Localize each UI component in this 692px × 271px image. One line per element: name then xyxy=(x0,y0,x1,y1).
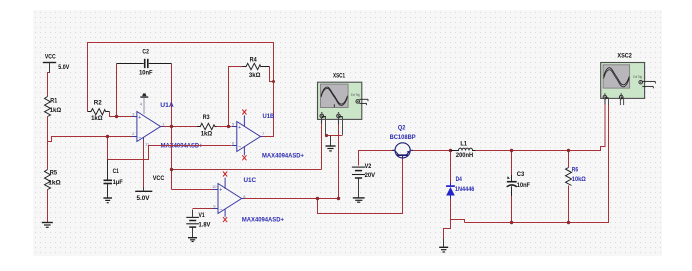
svg-text:10: 10 xyxy=(212,184,217,189)
svg-text:1kΩ: 1kΩ xyxy=(201,130,213,137)
ground below V2 xyxy=(353,179,365,203)
svg-text:MAX4094ASD+: MAX4094ASD+ xyxy=(262,153,304,160)
op-amp U1B xyxy=(232,115,263,155)
svg-text:−: − xyxy=(220,207,223,213)
svg-text:10nF: 10nF xyxy=(139,69,153,76)
battery V1 xyxy=(186,210,199,228)
svg-text:U1C: U1C xyxy=(244,177,257,184)
svg-text:1μF: 1μF xyxy=(113,179,123,186)
wire divider node to U1A inverting input xyxy=(48,137,133,142)
svg-text:1kΩ: 1kΩ xyxy=(50,107,62,114)
svg-text:Q2: Q2 xyxy=(398,125,406,132)
svg-text:Ext Trig: Ext Trig xyxy=(633,75,642,79)
wire U1A output row to XSC1 channel A xyxy=(172,169,322,171)
svg-text:1kΩ: 1kΩ xyxy=(91,115,103,122)
wire C3 top leg xyxy=(511,151,513,177)
wire R6 bottom leg xyxy=(568,186,570,223)
wire L1 to XSC2 channel A xyxy=(476,100,606,151)
svg-text:L1: L1 xyxy=(460,140,467,147)
op-amp U1C xyxy=(213,178,244,217)
node C3 bottom junction xyxy=(510,221,513,224)
svg-text:−: − xyxy=(139,135,142,141)
resistor R4 xyxy=(243,63,270,69)
wire U1C output branch to Q2 base xyxy=(318,159,403,214)
svg-text:XSC2: XSC2 xyxy=(617,52,632,59)
wire R3 right to U1B noninverting input xyxy=(217,126,232,128)
svg-text:+: + xyxy=(138,115,141,121)
svg-text:1kΩ: 1kΩ xyxy=(48,179,60,186)
wire U1C output to XSC1 B tap xyxy=(243,198,339,200)
node XSC1 A- arrow junction xyxy=(325,134,328,137)
wire overlay divider-to-U1B over label xyxy=(149,145,232,147)
svg-text:BC108BP: BC108BP xyxy=(390,134,417,141)
wire XSC1 B+ probe down to U1C output row xyxy=(338,119,340,199)
wire overlay C2 leg over label xyxy=(171,137,173,156)
wire U1A output to R3 xyxy=(163,126,199,128)
node U1C output / Q2 base junction xyxy=(316,197,319,200)
diode D4 1N4446 xyxy=(446,183,455,199)
node divider / C1 junction xyxy=(106,135,109,138)
resistor R6 xyxy=(566,168,572,186)
capacitor C3 xyxy=(507,175,517,196)
svg-text:VCC: VCC xyxy=(45,53,56,60)
power symbol above U1A xyxy=(140,93,148,114)
wire V1 to U1C inverting input xyxy=(193,208,214,210)
ERC marker below U1B xyxy=(242,155,246,160)
svg-text:1.8V: 1.8V xyxy=(199,221,211,228)
svg-text:R2: R2 xyxy=(94,99,102,106)
svg-text:10nF: 10nF xyxy=(517,182,530,189)
node U1A output row junction xyxy=(170,168,173,171)
wire Q2 emitter to L1 xyxy=(412,150,451,152)
svg-text:U1B: U1B xyxy=(263,113,275,120)
wire C2 left leg xyxy=(116,64,118,117)
wire branch to U1C noninverting input xyxy=(172,189,214,191)
svg-text:XSC1: XSC1 xyxy=(333,72,345,79)
svg-text:+: + xyxy=(219,188,222,194)
battery V2 xyxy=(352,167,365,178)
resistor R5 xyxy=(45,170,51,190)
svg-text:R6: R6 xyxy=(572,166,579,173)
wire R5 bottom to ground xyxy=(47,190,49,223)
wire V2 plus to Q2 collector xyxy=(359,151,396,166)
wire bottom ground rail xyxy=(465,105,609,223)
svg-text:C3: C3 xyxy=(517,171,525,178)
wire top feedback loop R2-left up across top down to U1B output xyxy=(88,43,274,137)
wire U1A bottom power pin to VCC symbol xyxy=(143,139,145,188)
wire R2 right to U1A noninverting input xyxy=(110,112,133,117)
node R3 / R4 junction xyxy=(227,125,230,128)
transistor Q2 BC108BP xyxy=(392,143,413,159)
svg-text:−: − xyxy=(238,144,241,150)
oscilloscope XSC2 xyxy=(601,63,656,106)
ground below C1 xyxy=(103,198,112,203)
inductor L1 xyxy=(451,148,476,150)
node U1A output / C2 junction xyxy=(170,125,173,128)
oscilloscope XSC1 xyxy=(318,82,369,135)
power VCC below U1A xyxy=(135,187,152,191)
power VCC top-left xyxy=(43,63,56,73)
svg-text:MAX4094ASD+: MAX4094ASD+ xyxy=(242,217,284,224)
svg-text:R4: R4 xyxy=(250,57,257,64)
wire R4 left vertical xyxy=(229,67,243,127)
ground below V1 xyxy=(188,228,197,242)
ERC marker above U1B xyxy=(242,110,246,115)
svg-text:20V: 20V xyxy=(365,172,376,179)
node XSC1 B+ tap junction xyxy=(337,197,340,200)
ERC marker above U1C xyxy=(223,172,227,177)
svg-text:3kΩ: 3kΩ xyxy=(249,72,261,79)
wire VCC to R1 xyxy=(48,64,50,97)
svg-text:V1: V1 xyxy=(199,212,205,219)
wire C2 right leg down to U1C branch row xyxy=(171,64,173,190)
capacitor C1 xyxy=(104,160,113,198)
wire XSC1 A+ probe down xyxy=(321,119,323,170)
svg-text:200nH: 200nH xyxy=(456,152,473,159)
ground below R5 xyxy=(42,223,53,228)
resistor R1 xyxy=(45,97,51,117)
svg-text:R5: R5 xyxy=(50,170,58,177)
node R6 bottom junction xyxy=(567,221,570,224)
ERC marker below U1C xyxy=(223,217,227,222)
wire D4 ground jog xyxy=(444,220,451,243)
node R4 / U1B output junction xyxy=(272,80,275,83)
wire C3 bottom leg xyxy=(511,191,513,223)
svg-text:U1A: U1A xyxy=(160,102,174,109)
resistor R3 xyxy=(197,123,217,129)
wire divider tap down to C1 and right to U1B inverting input xyxy=(108,137,232,160)
wire XSC1 minus probes common xyxy=(326,135,343,137)
svg-text:D4: D4 xyxy=(456,176,463,183)
node L1 / D4 junction xyxy=(449,149,452,152)
svg-text:10kΩ: 10kΩ xyxy=(572,176,586,183)
svg-text:V2: V2 xyxy=(365,163,372,170)
node R6 top junction xyxy=(567,149,570,152)
svg-text:R3: R3 xyxy=(203,114,210,121)
svg-text:5.0V: 5.0V xyxy=(58,64,70,71)
capacitor C2 xyxy=(117,59,172,68)
svg-text:5.0V: 5.0V xyxy=(137,195,151,202)
node R2/C2 junction xyxy=(115,115,118,118)
wire R4 right jog to U1B output vertical xyxy=(270,67,274,82)
wire D4 top leg xyxy=(450,151,452,185)
op-amp U1A xyxy=(132,112,163,142)
node C3 top junction xyxy=(510,149,513,152)
svg-text:+: + xyxy=(238,125,241,131)
wire R6 top leg xyxy=(568,151,570,168)
svg-text:C2: C2 xyxy=(142,49,149,56)
svg-text:1N4446: 1N4446 xyxy=(455,186,475,193)
svg-text:VCC: VCC xyxy=(153,175,165,182)
wire D4 bottom leg to rail xyxy=(451,198,465,223)
resistor R2 xyxy=(88,109,110,115)
svg-text:MAX4094ASD+: MAX4094ASD+ xyxy=(161,143,203,150)
wire R1 bottom to R5 top xyxy=(47,117,49,170)
svg-text:R1: R1 xyxy=(50,97,57,104)
svg-text:Ext Trig: Ext Trig xyxy=(351,93,360,97)
svg-text:C1: C1 xyxy=(113,168,119,175)
ground XSC1 probes xyxy=(326,136,336,151)
ground below D4 xyxy=(439,239,448,253)
